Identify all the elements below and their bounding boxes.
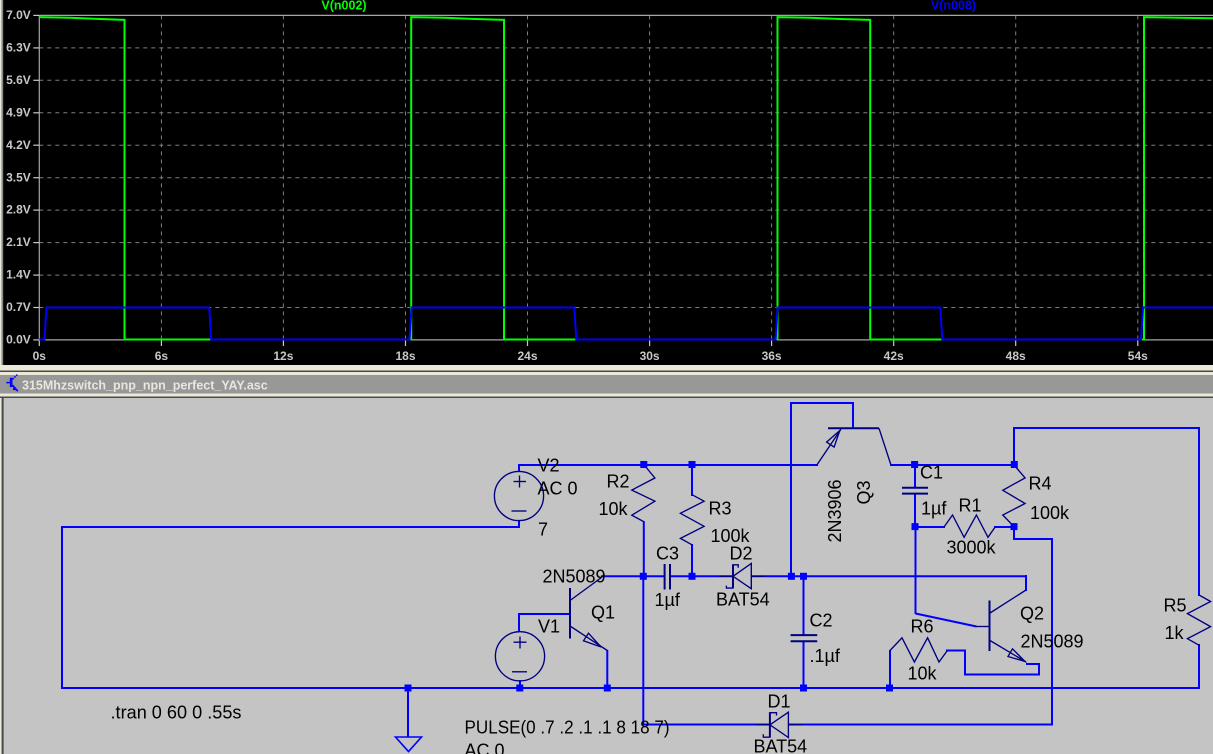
svg-text:6.3V: 6.3V <box>6 41 31 55</box>
svg-text:2N3906: 2N3906 <box>825 479 845 542</box>
svg-text:BAT54: BAT54 <box>716 590 770 610</box>
svg-text:.1µf: .1µf <box>810 646 841 666</box>
svg-text:6s: 6s <box>155 349 169 363</box>
svg-text:36s: 36s <box>762 349 782 363</box>
svg-text:0s: 0s <box>33 349 47 363</box>
svg-text:2N5089: 2N5089 <box>543 567 606 587</box>
svg-text:4.2V: 4.2V <box>6 138 31 152</box>
svg-text:R3: R3 <box>709 499 732 519</box>
svg-text:PULSE(0 .7 .2 .1 .1 8 18 7): PULSE(0 .7 .2 .1 .1 8 18 7) <box>465 718 670 738</box>
svg-text:12s: 12s <box>273 349 293 363</box>
svg-text:100k: 100k <box>1030 503 1070 523</box>
svg-text:5.6V: 5.6V <box>6 73 31 87</box>
svg-text:R2: R2 <box>607 472 630 492</box>
svg-text:1µf: 1µf <box>921 499 947 519</box>
svg-text:54s: 54s <box>1128 349 1148 363</box>
svg-text:3000k: 3000k <box>947 538 997 558</box>
svg-text:Q1: Q1 <box>591 603 615 623</box>
svg-text:24s: 24s <box>517 349 537 363</box>
svg-text:10k: 10k <box>599 499 629 519</box>
svg-text:1.4V: 1.4V <box>6 268 31 282</box>
svg-text:R1: R1 <box>959 496 982 516</box>
svg-text:0.7V: 0.7V <box>6 300 31 314</box>
svg-text:2N5089: 2N5089 <box>1021 632 1084 652</box>
svg-text:C2: C2 <box>810 611 833 631</box>
svg-text:D1: D1 <box>768 692 791 712</box>
svg-text:R5: R5 <box>1164 596 1187 616</box>
svg-text:V(n008): V(n008) <box>931 0 976 13</box>
svg-text:2.1V: 2.1V <box>6 235 31 249</box>
svg-text:D2: D2 <box>730 544 753 564</box>
svg-text:1k: 1k <box>1165 623 1185 643</box>
svg-text:AC 0: AC 0 <box>538 479 578 499</box>
svg-text:Q2: Q2 <box>1020 604 1044 624</box>
svg-text:R4: R4 <box>1029 474 1052 494</box>
svg-text:315Mhzswitch_pnp_npn_perfect_Y: 315Mhzswitch_pnp_npn_perfect_YAY.asc <box>22 379 268 393</box>
svg-text:30s: 30s <box>640 349 660 363</box>
svg-text:1µf: 1µf <box>655 590 681 610</box>
svg-text:V2: V2 <box>538 456 560 476</box>
svg-text:10k: 10k <box>908 664 938 684</box>
svg-text:2.8V: 2.8V <box>6 203 31 217</box>
svg-text:Q3: Q3 <box>854 480 874 504</box>
svg-text:7: 7 <box>538 520 548 540</box>
svg-text:BAT54: BAT54 <box>754 737 808 754</box>
svg-text:C3: C3 <box>656 544 679 564</box>
svg-text:3.5V: 3.5V <box>6 170 31 184</box>
svg-text:V(n002): V(n002) <box>321 0 366 13</box>
svg-text:7.0V: 7.0V <box>6 8 31 22</box>
svg-text:0.0V: 0.0V <box>6 333 31 347</box>
svg-text:V1: V1 <box>538 617 560 637</box>
svg-text:4.9V: 4.9V <box>6 105 31 119</box>
svg-text:AC 0: AC 0 <box>465 741 505 754</box>
svg-text:.tran 0 60 0 .55s: .tran 0 60 0 .55s <box>111 703 242 723</box>
svg-text:18s: 18s <box>395 349 415 363</box>
svg-text:42s: 42s <box>884 349 904 363</box>
svg-text:C1: C1 <box>920 463 943 483</box>
svg-text:R6: R6 <box>911 617 934 637</box>
svg-text:48s: 48s <box>1006 349 1026 363</box>
